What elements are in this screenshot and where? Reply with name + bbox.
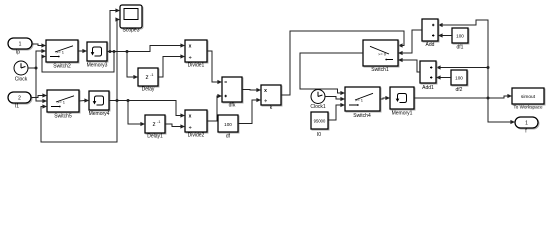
label To Workspace [513,105,542,110]
svg-text:df2: df2 [456,87,463,93]
svg-text:To Workspace: To Workspace [513,105,542,110]
label dfk [229,103,236,109]
label Delay1 [147,134,163,140]
switch Switch5 [47,90,80,113]
wire Switch2 to Memory3 [78,49,87,53]
wire Delay1 to Divide2 div [165,124,185,129]
scope Scope3 [120,5,143,29]
label Add [426,42,435,48]
svg-text:Memory4: Memory4 [89,111,110,117]
junction net F at simout [487,97,490,100]
svg-text:x: x [264,88,267,94]
wire net F branch to outport f [488,98,515,124]
wire Clock1 to Switch4 in2 [325,97,345,102]
inport Ip (1) [8,38,33,50]
divide Divide2 [185,110,208,133]
svg-text:I1: I1 [15,104,19,110]
switch Switch1 (mirrored) [363,40,399,67]
svg-text:Scope3: Scope3 [123,28,140,34]
wire df1 to Add in2 [438,33,452,37]
label I0 [317,132,321,138]
svg-text:÷: ÷ [189,125,192,131]
svg-text:Memory3: Memory3 [87,63,108,69]
memory Memory3 [87,42,108,62]
wire net F vertical to Add in1 [438,20,488,98]
svg-text:Add: Add [426,42,435,48]
svg-text:z: z [152,121,155,128]
wire Add1 out to Switch1 in3 [398,58,420,72]
sum Add1 (mirrored) [420,61,437,84]
wire Delay to Divide1 div [158,54,185,77]
junction Memory4 scope-feedback [116,99,119,102]
svg-text:df: df [226,134,231,140]
wire Switch1 out to Switch4 in1 [300,53,363,95]
svg-text:Switch1: Switch1 [371,67,389,73]
label Delay [142,87,155,93]
label Switch2 [53,64,71,70]
delay Delay [138,68,159,87]
constant I0 (95000) [311,112,329,130]
wire Memory4 out to Divide2 x [109,101,185,118]
wire I0 to Switch4 in3 [328,103,345,120]
wire Memory3 to Scope3 in1 [110,8,120,51]
svg-text:Add1: Add1 [422,85,434,91]
svg-text:-1: -1 [157,120,160,124]
constant df2 (100) [451,70,468,86]
subtract dfk [222,77,243,103]
clock Clock [14,61,28,75]
label Clock [15,77,28,83]
clock Clock1 [311,90,325,104]
junction Memory3 feedback [113,50,116,53]
svg-text:I0: I0 [317,132,321,138]
svg-text:÷: ÷ [264,99,267,105]
svg-text:÷: ÷ [189,55,192,61]
svg-text:simout: simout [521,94,536,100]
svg-text:z: z [145,74,148,81]
svg-text:-1: -1 [150,73,153,77]
svg-text:x: x [189,44,192,50]
junction Memory3 delay branch [126,50,129,53]
wire Memory4 branch to Delay1 [128,101,145,127]
svg-text:100: 100 [224,122,232,127]
memory Memory1 [390,87,415,110]
memory Memory4 [89,91,110,111]
wire Add out to Switch1 in2 [398,30,422,55]
wire Clock out [28,67,36,69]
svg-text:Delay: Delay [142,87,155,93]
wire Memory3 branch to Delay [127,52,138,80]
wire Memory4 to Scope3 in2 and feedback to Switch5 in3 [41,17,120,142]
divide k [261,85,282,106]
switch Switch2 [46,40,79,63]
label df2 [456,87,463,93]
svg-text:Switch4: Switch4 [353,113,371,119]
junction clock split [35,67,38,70]
label k [270,105,273,111]
svg-text:100: 100 [456,33,464,38]
junction Memory3 riser [109,50,112,53]
inport I1 (2) [8,92,32,104]
svg-text:>= 0: >= 0 [378,51,387,56]
label Switch1 [371,67,389,73]
svg-text:2: 2 [18,96,21,102]
svg-text:Ip: Ip [16,50,20,56]
wire k to Switch1 in1 [281,31,404,95]
wire net F branch to Add1 in1 [436,65,488,69]
wire Divide1 to dfk in1 [207,51,222,84]
wire Ip to Switch2 in1 [32,43,46,47]
label Ip [16,50,20,56]
label Add1 [422,85,434,91]
junction Memory4 delay branch [127,99,130,102]
svg-text:Clock1: Clock1 [310,104,326,110]
svg-text:Divide1: Divide1 [188,63,205,69]
constant df (100) [218,115,239,133]
svg-text:Delay1: Delay1 [147,134,163,140]
svg-text:Switch2: Switch2 [53,64,71,70]
outport f (1) [515,117,539,129]
switch Switch4 [345,87,381,112]
svg-text:1: 1 [525,121,528,127]
svg-text:100: 100 [455,75,463,80]
label Switch5 [54,114,72,120]
label I1 [15,104,19,110]
label Memory3 [87,63,108,69]
label Memory1 [392,111,413,117]
wire dfk to k x [242,88,261,92]
delay Delay1 [145,115,166,134]
wire clock to Switch5 in2 [36,68,47,103]
wire Memory3 feedback to Switch2 in3 [41,52,114,73]
label df [226,134,231,140]
svg-text:Clock: Clock [15,77,28,83]
wire Memory1 out to To Workspace [414,94,512,98]
label Divide2 [188,133,205,139]
label df1 [457,45,464,51]
svg-text:x: x [189,114,192,120]
label Divide1 [188,63,205,69]
wire Switch5 to Memory4 [79,98,89,102]
wire Switch4 to Memory1 [380,96,390,100]
wire clock to Switch2 in2 [36,49,46,68]
wire I1 to Switch5 in1 [31,93,47,97]
constant df1 (100) [452,28,469,44]
svg-text:95000: 95000 [314,119,326,124]
junction net F to Add1 [487,66,490,69]
to-workspace simout [512,88,545,105]
svg-text:Memory1: Memory1 [392,111,413,117]
wire Divide2 to dfk in2 [207,94,222,121]
svg-text:Switch5: Switch5 [54,114,72,120]
svg-text:df1: df1 [457,45,464,51]
wire Memory3 out to Divide1 x [107,43,185,51]
wire df to k div [238,98,261,124]
divide Divide1 [185,40,208,63]
svg-text:1: 1 [19,42,22,48]
sum Add (mirrored) [422,19,439,42]
svg-text:Divide2: Divide2 [188,133,205,139]
label Scope3 [123,28,140,34]
label f [525,129,527,135]
label Memory4 [89,111,110,117]
label Switch4 [353,113,371,119]
label Clock1 [310,104,326,110]
svg-text:dfk: dfk [229,103,236,109]
wire df2 to Add1 in2 [436,75,451,79]
